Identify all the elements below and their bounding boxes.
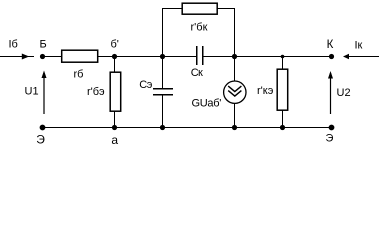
wire: down to current source (234, 57, 236, 82)
wire: Сэ branch vertical upper (162, 9, 164, 89)
svg-text:r'кэ: r'кэ (257, 85, 274, 97)
svg-text:r'бэ: r'бэ (87, 86, 105, 98)
wire: Iк input lead (349, 56, 380, 58)
current source GUaб' circle (224, 81, 246, 103)
svg-text:Э: Э (326, 133, 334, 145)
svg-text:U2: U2 (337, 87, 351, 99)
resistor r'кэ (277, 69, 288, 110)
node dot current source bottom (232, 125, 237, 130)
svg-text:Б: Б (40, 39, 47, 51)
node Э right dot (329, 125, 335, 131)
svg-text:Э: Э (36, 133, 45, 147)
node б' dot (112, 54, 117, 59)
wire: rб to б' (98, 56, 115, 58)
capacitor Сэ plates (153, 89, 173, 95)
resistor r'бэ (110, 72, 121, 111)
wire: Iб input lead (0, 56, 34, 58)
current source chevron 2 (228, 91, 241, 97)
svg-text:GUaб': GUaб' (192, 98, 222, 110)
wire: б' to Сэ branch (115, 56, 197, 58)
svg-text:r'бк: r'бк (191, 22, 208, 34)
current arrow Iб head (22, 54, 29, 60)
node К dot (329, 54, 334, 59)
node junction dot at Сэ branch (160, 54, 165, 59)
svg-text:К: К (327, 39, 334, 51)
voltage arrow U2 (328, 71, 333, 114)
wire: current source to bottom rail (234, 104, 236, 128)
node dot current source top (232, 54, 237, 59)
node dot rкэ top junction (281, 55, 285, 59)
voltage arrow U1 (42, 71, 47, 115)
resistor rб (62, 50, 98, 62)
svg-text:Сэ: Сэ (139, 79, 152, 91)
current source chevron 1 (228, 86, 241, 92)
svg-text:Iк: Iк (355, 40, 363, 52)
wire: Сэ to bottom rail (162, 95, 164, 128)
wire: rб'э to bottom rail (114, 111, 116, 128)
svg-text:rб: rб (74, 69, 84, 81)
wire: top branch horizontal left (162, 8, 182, 10)
wire: top branch horizontal right (217, 8, 235, 10)
svg-text:б': б' (111, 39, 119, 51)
svg-text:U1: U1 (25, 86, 39, 98)
node a dot top of bottom rail (112, 125, 117, 130)
resistor r'бк (182, 3, 217, 14)
svg-text:Iб: Iб (9, 39, 18, 51)
node Б dot (40, 54, 45, 59)
node dot rкэ bottom (280, 125, 285, 130)
capacitor Ск plates (197, 46, 203, 65)
wire: Ск to current source node (203, 56, 332, 58)
bottom rail wire (43, 127, 332, 129)
wire: Б to rб (43, 56, 62, 58)
node Э left dot (40, 125, 46, 131)
svg-text:a: a (111, 133, 118, 147)
wire: top branch right vertical (234, 9, 236, 57)
wire: down to rкэ (282, 57, 284, 70)
wire: б' down to rб'э (114, 57, 116, 73)
current arrow Iк head (343, 54, 349, 59)
node dot Сэ bottom (160, 125, 165, 130)
wire: rкэ to bottom rail (282, 110, 284, 128)
svg-text:Ск: Ск (191, 67, 203, 79)
